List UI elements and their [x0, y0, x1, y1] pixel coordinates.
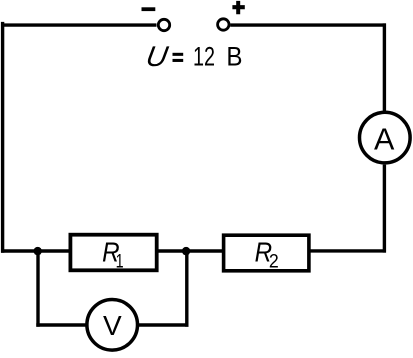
- voltmeter U2 circle: [87, 300, 138, 351]
- node A junction dot: [34, 247, 42, 255]
- minus polarity sign: [142, 7, 156, 11]
- plus polarity sign: [232, 1, 244, 14]
- node B junction dot: [182, 247, 190, 255]
- terminal minus (open circle): [158, 19, 169, 30]
- wire node B vertical down: [185, 251, 188, 327]
- wire node A vertical down: [36, 251, 39, 327]
- ammeter U3 circle: [360, 112, 411, 163]
- svg-text:1: 1: [116, 251, 124, 273]
- wire right vertical lower: [383, 165, 386, 253]
- wire bottom right horizontal: [309, 249, 386, 252]
- resistor R1 box: [70, 235, 156, 271]
- equals sign: [173, 53, 184, 56]
- terminal plus (open circle): [218, 19, 229, 30]
- svg-text:V: V: [103, 310, 122, 341]
- wire R2 left to node B: [156, 249, 224, 252]
- resistor R2 box: [224, 235, 309, 271]
- wire bottom left horizontal to voltmeter: [36, 323, 86, 326]
- wire top right from plus terminal: [230, 23, 386, 26]
- svg-text:В: В: [226, 40, 242, 71]
- wire R1 left to node A and left corner: [1, 249, 71, 252]
- svg-text:2: 2: [269, 251, 279, 273]
- wire left vertical: [1, 22, 4, 253]
- svg-text:12: 12: [193, 40, 215, 71]
- wire voltmeter right horizontal: [139, 323, 189, 326]
- wire top left to minus terminal: [1, 23, 157, 26]
- svg-text:A: A: [374, 122, 395, 156]
- wire right vertical upper: [383, 23, 386, 111]
